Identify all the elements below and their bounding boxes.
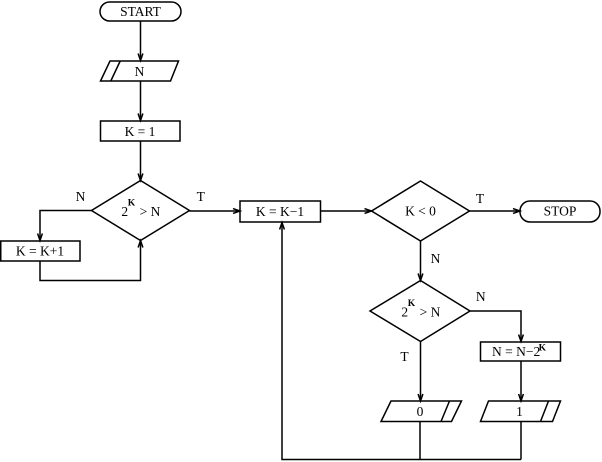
svg-text:K: K: [539, 343, 547, 353]
arrowhead into K=K-1 left: [233, 209, 240, 214]
svg-text:K = K+1: K = K+1: [16, 244, 64, 259]
arrowhead into decision 3: [418, 274, 423, 281]
decision 2: K<0: [372, 181, 470, 241]
arrowhead into N: [138, 54, 143, 61]
terminal START: [100, 2, 181, 21]
wire decision1 N branch to K=K+1: [40, 211, 92, 241]
svg-text:STOP: STOP: [544, 204, 577, 219]
wire N=N-2^K to output 1: [520, 361, 522, 400]
wire N to K=1: [140, 81, 142, 120]
decision 1: 2^K &gt; N: [92, 181, 190, 241]
decision 3: 2^K &gt; N: [370, 281, 470, 342]
bottom feedback wire: [282, 223, 521, 460]
svg-text:N: N: [476, 289, 486, 304]
input N parallelogram: [101, 61, 179, 81]
wire decision1 T branch to K=K-1: [190, 210, 240, 212]
arrowhead into output 0: [418, 394, 423, 401]
svg-text:K < 0: K < 0: [405, 204, 436, 219]
wire output 0 down: [419, 422, 421, 460]
svg-text:N: N: [135, 64, 145, 79]
inner slash of output 0: [441, 401, 450, 422]
process K=K+1: [1, 241, 80, 261]
inner slash of N parallelogram: [111, 61, 120, 81]
svg-text:1: 1: [516, 404, 523, 419]
process K=1: [101, 121, 181, 141]
svg-text:K: K: [408, 299, 416, 309]
arrowhead into STOP: [513, 209, 520, 214]
arrowhead into decision K<0: [365, 209, 372, 214]
svg-text:> N: > N: [140, 204, 161, 219]
svg-text:0: 0: [417, 404, 424, 419]
wire decision3 T branch to output 0: [420, 342, 422, 401]
arrowhead into K=K+1: [38, 234, 43, 241]
svg-text:K: K: [128, 199, 136, 209]
arrowhead into decision 1: [138, 174, 143, 181]
wire START to N: [140, 21, 142, 60]
arrowhead into output 1: [519, 394, 524, 401]
svg-text:N: N: [431, 251, 441, 266]
output 1 parallelogram: [481, 401, 561, 422]
svg-text:T: T: [197, 189, 206, 204]
wire K=1 to decision 1: [140, 141, 142, 180]
wire K=K-1 to decision K<0: [321, 210, 371, 212]
wire decision3 N branch to N=N-2^K: [470, 311, 521, 341]
svg-text:K = 1: K = 1: [125, 124, 156, 139]
loop wire K=K+1 back to decision 1 bottom: [40, 241, 141, 281]
arrowhead into N=N-2^K: [519, 335, 524, 342]
inner slash of output 1: [541, 401, 549, 422]
output 0 parallelogram: [381, 401, 462, 422]
svg-text:> N: > N: [420, 305, 441, 320]
svg-text:START: START: [120, 4, 162, 19]
arrowhead up into decision 1 bottom: [138, 241, 143, 248]
process K=K-1: [240, 201, 321, 222]
svg-text:T: T: [400, 349, 409, 364]
arrowhead into K=1: [138, 114, 143, 121]
svg-text:K = K−1: K = K−1: [256, 204, 304, 219]
wire K<0 N branch down to decision 3: [420, 241, 422, 280]
svg-text:N: N: [76, 189, 86, 204]
svg-text:T: T: [476, 191, 485, 206]
wire output 1 down: [520, 422, 522, 460]
process N=N-2^K: [481, 342, 561, 361]
wire K<0 T branch to STOP: [470, 210, 520, 212]
svg-text:N = N−2: N = N−2: [492, 344, 540, 359]
terminal STOP: [520, 201, 600, 222]
arrowhead up into K=K-1 bottom: [280, 223, 285, 230]
